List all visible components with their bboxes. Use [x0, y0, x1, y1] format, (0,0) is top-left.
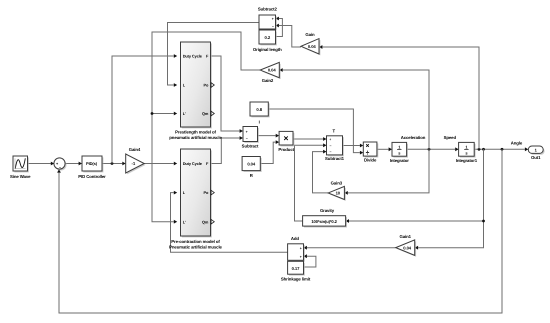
svg-text:0.04: 0.04: [268, 68, 277, 73]
svg-text:0.04: 0.04: [403, 245, 412, 250]
svg-text:Gain4: Gain4: [129, 147, 141, 152]
svg-text:Divide: Divide: [364, 157, 377, 162]
svg-text:Po: Po: [204, 83, 209, 88]
svg-text:I: I: [259, 119, 260, 124]
svg-text:Product: Product: [278, 147, 294, 152]
svg-text:Gain: Gain: [305, 32, 315, 37]
svg-text:10: 10: [336, 191, 341, 196]
svg-text:0.2: 0.2: [265, 35, 271, 40]
svg-text:0.04: 0.04: [247, 162, 256, 167]
svg-text:Qm: Qm: [202, 111, 209, 116]
svg-text:100*sin(u)*0.2: 100*sin(u)*0.2: [311, 219, 337, 224]
svg-text:0.04: 0.04: [308, 44, 317, 49]
svg-text:pneumatic artificial muscle: pneumatic artificial muscle: [169, 135, 222, 140]
svg-text:Integrator: Integrator: [390, 158, 409, 163]
svg-text:Duty Cycle: Duty Cycle: [183, 161, 203, 166]
svg-text:Prestlength model of: Prestlength model of: [175, 130, 216, 135]
svg-text:Gain2: Gain2: [262, 78, 274, 83]
svg-text:Subtract1: Subtract1: [325, 156, 345, 161]
svg-text:−: −: [246, 137, 248, 141]
svg-text:+: +: [300, 255, 302, 259]
svg-text:0.17: 0.17: [292, 266, 301, 271]
svg-text:Shrinkage limit: Shrinkage limit: [281, 277, 311, 282]
svg-text:−: −: [329, 144, 331, 148]
svg-text:Speed: Speed: [444, 135, 457, 140]
svg-text:Pre-contraction model of: Pre-contraction model of: [171, 239, 220, 244]
svg-text:Add: Add: [291, 236, 300, 241]
svg-text:Subtract: Subtract: [242, 143, 259, 148]
svg-text:Gain3: Gain3: [331, 180, 343, 185]
svg-text:+: +: [246, 130, 248, 134]
svg-text:Integrator1: Integrator1: [456, 158, 478, 163]
svg-text:PID Controller: PID Controller: [78, 174, 106, 179]
svg-text:L': L': [183, 111, 186, 116]
svg-text:Angle: Angle: [511, 140, 523, 145]
svg-text:−: −: [272, 24, 274, 28]
svg-text:Po: Po: [204, 190, 209, 195]
svg-text:Original length: Original length: [253, 47, 282, 52]
svg-text:+: +: [272, 17, 274, 21]
svg-text:−: −: [329, 150, 331, 154]
svg-text:Subtract2: Subtract2: [258, 6, 278, 11]
svg-text:0.8: 0.8: [256, 107, 262, 112]
svg-text:L': L': [183, 219, 186, 224]
svg-text:+: +: [300, 246, 302, 250]
svg-text:Gravity: Gravity: [320, 208, 335, 213]
svg-text:+: +: [329, 138, 331, 142]
svg-text:Qm: Qm: [202, 219, 209, 224]
svg-text:Sine Wave: Sine Wave: [10, 174, 31, 179]
svg-text:Gain1: Gain1: [399, 234, 411, 239]
svg-text:Pneumatic artificial muscle: Pneumatic artificial muscle: [169, 244, 222, 249]
svg-text:Out1: Out1: [531, 155, 541, 160]
svg-text:Acceleration: Acceleration: [401, 135, 426, 140]
svg-text:PID(s): PID(s): [86, 161, 98, 166]
svg-text:Duty Cycle: Duty Cycle: [183, 54, 203, 59]
